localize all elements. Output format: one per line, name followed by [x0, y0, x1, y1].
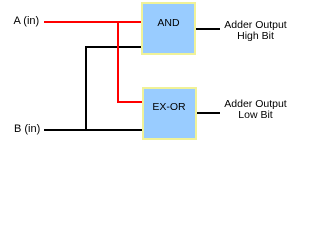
- wire: black horizontal branch into AND gate: [85, 46, 143, 48]
- gate U2: EX-OR (box): [142, 87, 197, 140]
- wire: EX-OR gate output stub: [195, 112, 220, 114]
- label: input B: [14, 124, 40, 135]
- wire: red A-input horizontal run to AND gate: [44, 21, 143, 23]
- wire: black B-input horizontal run to EX-OR gate: [44, 129, 144, 131]
- wire: black vertical branch from B line up to AND gate: [85, 46, 87, 131]
- wire: red vertical branch from A line down to EX-OR gate: [117, 21, 119, 102]
- label: adder output low bit: [224, 99, 287, 121]
- wire: AND gate output stub: [195, 28, 220, 30]
- label: input A: [14, 16, 40, 27]
- wire: red horizontal branch into EX-OR gate: [117, 101, 144, 103]
- label: adder output high bit: [224, 20, 287, 42]
- gate U1: AND (box): [141, 2, 196, 55]
